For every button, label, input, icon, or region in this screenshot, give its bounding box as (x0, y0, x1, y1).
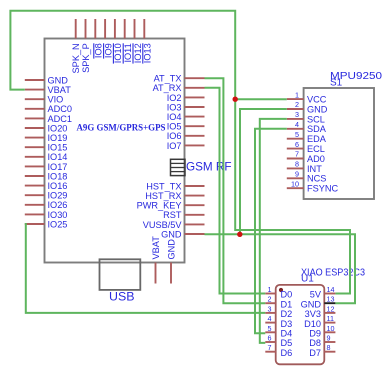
pin IO11 (A9G top) (123, 19, 133, 64)
svg-text:5V: 5V (310, 290, 322, 300)
pin IO2 (A9G right) (167, 93, 205, 103)
pin 1 marker dot (279, 288, 283, 292)
svg-text:SCL: SCL (307, 114, 325, 124)
pin IO17 (A9G left) (25, 162, 68, 172)
svg-text:AD0: AD0 (307, 154, 325, 164)
svg-text:D2: D2 (281, 309, 293, 319)
pin 14 5V (XIAO right) (310, 285, 336, 300)
pin 5 EDA (MPU9250) (287, 130, 327, 144)
wire branch VBAT to MPU VCC pin 1 (235, 98, 287, 100)
wire IO25 -> XIAO D2 pin 3 (25, 224, 265, 313)
wire AT_RX -> XIAO D0 pin 1 (205, 88, 266, 294)
svg-text:9: 9 (295, 170, 299, 179)
pin SPK_P (A9G top) (81, 19, 91, 73)
pin ADC0 (A9G left) (25, 104, 72, 114)
pin RST (A9G right lower) (163, 210, 204, 220)
pin IO13 (A9G top) (143, 19, 153, 64)
module U1 XIAO ESP32C3 body (276, 285, 325, 364)
pin IO26 (A9G left) (25, 200, 68, 210)
wire branch MPU GND pin 2 -> GND net (240, 109, 287, 234)
pin PWR_KEY (A9G right lower) (137, 201, 205, 211)
svg-text:ADC1: ADC1 (48, 114, 73, 124)
pin 5 D4 (XIAO left) (265, 324, 292, 339)
label USB (109, 290, 134, 304)
svg-text:SPK_P: SPK_P (81, 43, 91, 73)
svg-text:SPK_N: SPK_N (71, 43, 81, 73)
svg-text:5: 5 (295, 130, 299, 139)
svg-text:D3: D3 (281, 319, 293, 329)
pin 3 SCL (MPU9250) (287, 110, 325, 124)
pin 4 D3 (XIAO left) (265, 314, 292, 329)
svg-text:4: 4 (295, 120, 299, 129)
pin 8 INT (MPU9250) (287, 160, 322, 174)
svg-text:USB: USB (109, 290, 134, 304)
svg-text:IO26: IO26 (48, 200, 68, 210)
pin IO7 (A9G right) (167, 141, 205, 151)
svg-text:EDA: EDA (307, 134, 327, 144)
wire AT_TX -> XIAO D1 pin 2 (205, 78, 266, 303)
svg-text:GND: GND (48, 75, 69, 85)
svg-text:IO29: IO29 (48, 191, 68, 201)
pin 13 GND (XIAO right) (301, 295, 336, 310)
svg-text:S1: S1 (330, 78, 343, 89)
svg-text:AT_RX: AT_RX (153, 83, 182, 93)
pin HST_RX (A9G right lower) (145, 191, 204, 201)
svg-text:IO30: IO30 (48, 210, 68, 220)
pin HST_TX (A9G right lower) (146, 181, 204, 191)
pin IO15 (A9G left) (25, 143, 68, 153)
svg-text:4: 4 (268, 314, 272, 323)
pin IO30 (A9G left) (25, 210, 68, 220)
pin 12 3V3 (XIAO right) (305, 304, 336, 319)
pin 9 NCS (MPU9250) (287, 170, 327, 184)
pin ADC1 (A9G left) (25, 114, 72, 124)
svg-text:IO20: IO20 (48, 123, 68, 133)
pin GND (A9G right lower) (161, 229, 204, 239)
pin IO4 (A9G right) (167, 112, 205, 122)
svg-text:GSM RF: GSM RF (186, 160, 232, 174)
pin IO18 (A9G left) (25, 171, 68, 181)
pin 4 SDA (MPU9250) (287, 120, 327, 134)
pin VBAT (A9G bottom) (151, 236, 161, 284)
pin VBAT (A9G left) (25, 85, 71, 95)
svg-text:D4: D4 (281, 329, 293, 339)
svg-text:11: 11 (327, 314, 334, 323)
pin 7 AD0 (MPU9250) (287, 150, 325, 164)
svg-text:IO19: IO19 (48, 133, 68, 143)
pin IO19 (A9G left) (25, 133, 68, 143)
svg-text:6: 6 (295, 140, 299, 149)
IC U2 A9G GSM/GPRS+GPS body (45, 39, 185, 263)
label GSM RF (186, 160, 232, 174)
svg-text:1: 1 (268, 285, 272, 294)
svg-text:IO13: IO13 (143, 43, 153, 63)
svg-text:D8: D8 (309, 338, 321, 348)
pin 11 D10 (XIAO right) (304, 314, 335, 329)
junction VBAT at MPU VCC branch (233, 97, 238, 102)
pin IO10 (A9G top) (113, 19, 123, 64)
svg-text:2: 2 (295, 100, 299, 109)
svg-text:IO2: IO2 (167, 93, 182, 103)
svg-text:8: 8 (327, 343, 331, 352)
pin IO3 (A9G right) (167, 102, 205, 112)
svg-text:NCS: NCS (307, 174, 326, 184)
svg-text:VUSB/5V: VUSB/5V (143, 220, 183, 230)
pin IO25 (A9G left) (25, 219, 68, 229)
svg-text:D5: D5 (281, 338, 293, 348)
refdes S1 (330, 78, 343, 89)
pin AT_TX (A9G right) (154, 74, 205, 84)
svg-text:U1: U1 (301, 274, 314, 285)
pin 3 D2 (XIAO left) (265, 304, 292, 319)
svg-text:AT_TX: AT_TX (154, 74, 182, 84)
svg-text:D1: D1 (281, 299, 293, 309)
svg-text:8: 8 (295, 160, 299, 169)
pin 2 GND (MPU9250) (287, 100, 328, 114)
refdes U1 (301, 274, 314, 285)
svg-text:D9: D9 (309, 329, 321, 339)
pin 8 D7 (XIAO right) (309, 343, 335, 358)
pin 1 VCC (MPU9250) (287, 90, 327, 104)
pin IO9 (A9G top) (103, 19, 113, 59)
svg-text:3V3: 3V3 (305, 309, 321, 319)
svg-text:6: 6 (268, 334, 272, 343)
svg-text:IO18: IO18 (48, 171, 68, 181)
label XIAO ESP32C3 (301, 268, 365, 279)
pin 6 D5 (XIAO left) (265, 334, 292, 349)
pin IO20 (A9G left) (25, 123, 68, 133)
pin IO5 (A9G right) (167, 122, 205, 132)
pin 2 D1 (XIAO left) (265, 295, 292, 310)
svg-text:IO5: IO5 (167, 122, 182, 132)
svg-text:2: 2 (268, 295, 272, 304)
pin IO8 (A9G top) (94, 19, 104, 59)
svg-text:VCC: VCC (307, 95, 327, 105)
svg-text:D0: D0 (281, 290, 293, 300)
svg-text:HST_TX: HST_TX (146, 181, 181, 191)
pin AT_RX (A9G right) (153, 83, 205, 93)
svg-text:5: 5 (268, 324, 272, 333)
svg-text:10: 10 (327, 324, 335, 333)
pin IO12 (A9G top) (133, 19, 143, 64)
pin 7 D6 (XIAO left) (265, 343, 292, 358)
svg-text:IO6: IO6 (167, 131, 182, 141)
svg-text:IO4: IO4 (167, 112, 182, 122)
svg-text:INT: INT (307, 164, 322, 174)
svg-text:IO12: IO12 (133, 43, 143, 63)
svg-text:GND: GND (167, 239, 177, 260)
pin IO16 (A9G left) (25, 181, 68, 191)
svg-text:VBAT: VBAT (48, 85, 72, 95)
svg-text:FSYNC: FSYNC (307, 184, 339, 194)
svg-text:13: 13 (327, 295, 335, 304)
svg-text:IO16: IO16 (48, 181, 68, 191)
svg-text:VIO: VIO (48, 95, 64, 105)
svg-text:VBAT: VBAT (151, 236, 161, 260)
wire SDA: MPU pin 4 -> XIAO D4 pin 5 (255, 129, 287, 333)
value label A9G GSM/GPRS+GPS (77, 123, 166, 133)
svg-text:IO3: IO3 (167, 102, 182, 112)
svg-text:SDA: SDA (307, 124, 327, 134)
svg-text:14: 14 (327, 285, 335, 294)
svg-text:1: 1 (295, 90, 299, 99)
pin GND (A9G bottom) (167, 239, 177, 284)
svg-text:HST_RX: HST_RX (145, 191, 181, 201)
svg-text:IO17: IO17 (48, 162, 68, 172)
pin VIO (A9G left) (25, 95, 64, 105)
wire net VBAT: A9G VBAT -> top -> MPU VCC & XIAO 5V (10, 11, 350, 294)
wire SCL: MPU pin 3 -> XIAO D5 pin 6 (260, 119, 287, 343)
pin VUSB/5V (A9G right lower) (143, 220, 205, 230)
GSM RF antenna connector symbol (171, 159, 186, 175)
svg-text:D10: D10 (304, 319, 321, 329)
svg-text:7: 7 (295, 150, 299, 159)
IC S1 MPU9250 body (304, 88, 374, 199)
svg-text:GND: GND (161, 229, 182, 239)
svg-text:10: 10 (291, 179, 299, 188)
pin GND (A9G left) (25, 75, 68, 85)
svg-text:IO14: IO14 (48, 152, 68, 162)
pin SPK_N (A9G top) (71, 19, 81, 73)
svg-text:D6: D6 (281, 348, 293, 358)
svg-text:ADC0: ADC0 (48, 104, 73, 114)
pin 9 D8 (XIAO right) (309, 334, 335, 349)
svg-text:ECL: ECL (307, 144, 325, 154)
pin 6 ECL (MPU9250) (287, 140, 325, 154)
svg-text:D7: D7 (309, 348, 321, 358)
svg-text:IO25: IO25 (48, 219, 68, 229)
svg-text:A9G GSM/GPRS+GPS: A9G GSM/GPRS+GPS (77, 123, 166, 133)
svg-text:IO10: IO10 (113, 43, 123, 63)
pin 10 FSYNC (MPU9250) (287, 179, 339, 193)
junction GND net (237, 232, 242, 237)
svg-text:PWR_KEY: PWR_KEY (137, 201, 182, 211)
label MPU9250 (330, 71, 383, 82)
svg-text:IO15: IO15 (48, 143, 68, 153)
pin IO29 (A9G left) (25, 191, 68, 201)
pin IO6 (A9G right) (167, 131, 205, 141)
svg-text:IO9: IO9 (103, 43, 113, 58)
USB connector body (100, 259, 141, 290)
svg-text:RST: RST (163, 210, 182, 220)
svg-text:9: 9 (327, 334, 331, 343)
wire net GND: A9G GND -> XIAO GND pin 13 (205, 234, 356, 303)
svg-text:IO7: IO7 (167, 141, 182, 151)
svg-text:GND: GND (307, 104, 328, 114)
pin IO14 (A9G left) (25, 152, 68, 162)
svg-text:IO8: IO8 (94, 43, 104, 58)
svg-text:3: 3 (295, 110, 299, 119)
pin 10 D9 (XIAO right) (309, 324, 335, 339)
svg-text:GND: GND (301, 299, 322, 309)
svg-text:3: 3 (268, 304, 272, 313)
svg-text:IO11: IO11 (123, 43, 133, 62)
pin 1 D0 (XIAO left) (265, 285, 292, 300)
svg-text:12: 12 (327, 304, 335, 313)
svg-text:7: 7 (268, 343, 272, 352)
